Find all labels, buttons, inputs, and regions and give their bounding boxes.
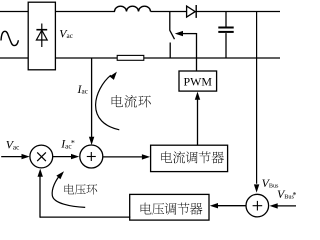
- wire top rail: diode to output: [196, 11, 280, 13]
- wire summer to current regulator: [103, 156, 143, 158]
- current regulator box 电流调节器: [151, 145, 228, 171]
- wire Vbus* reference input: [278, 205, 297, 207]
- rectifier bridge box: [28, 2, 55, 70]
- wire voltage summer to voltage regulator: [217, 205, 247, 207]
- wire output bus vertical (Vbus sense): [256, 12, 258, 184]
- summing junction S2 (voltage): [246, 194, 269, 217]
- capacitor C (output bus): [225, 12, 227, 27]
- gate drive wire from PWM to switch: [182, 33, 197, 35]
- svg-text:PWM: PWM: [183, 75, 212, 89]
- voltage loop annotation arrow: [52, 174, 85, 208]
- wire Vac input arrow: [1, 156, 22, 158]
- transistor switch Q (to PWM): [169, 12, 171, 31]
- voltage regulator box 电压调节器: [130, 194, 209, 220]
- svg-text:*: *: [293, 191, 297, 200]
- wire Iac sense tap down to summer: [91, 58, 93, 137]
- svg-text:*: *: [71, 139, 75, 148]
- wire bottom rail: source to rectifier: [0, 57, 28, 59]
- label 电压环 (voltage loop): [64, 184, 97, 195]
- multiplier M: [30, 145, 53, 168]
- wire current regulator to PWM: [197, 99, 199, 145]
- current sense shunt resistor: [117, 55, 144, 60]
- wire top rail: source to rectifier: [0, 11, 28, 13]
- summing junction S1 (current): [80, 145, 103, 168]
- rectifier diode symbol: [36, 24, 47, 48]
- wire top rail: inductor to diode: [151, 11, 187, 13]
- wire voltage regulator feedback to multiplier: [40, 216, 130, 218]
- AC source Vs sine symbol: [1, 31, 18, 45]
- current loop annotation arrow: [96, 75, 120, 130]
- PWM block: [179, 71, 217, 91]
- diode D (boost): [187, 6, 196, 17]
- inductor L: [115, 6, 151, 11]
- wire multiplier to current summer: [53, 156, 72, 158]
- wire bottom rail: rectifier to shunt: [55, 57, 117, 59]
- wire bottom rail: shunt to output: [144, 57, 280, 59]
- label 电流环 (current loop): [112, 95, 151, 108]
- wire top rail: rectifier to inductor: [55, 11, 115, 13]
